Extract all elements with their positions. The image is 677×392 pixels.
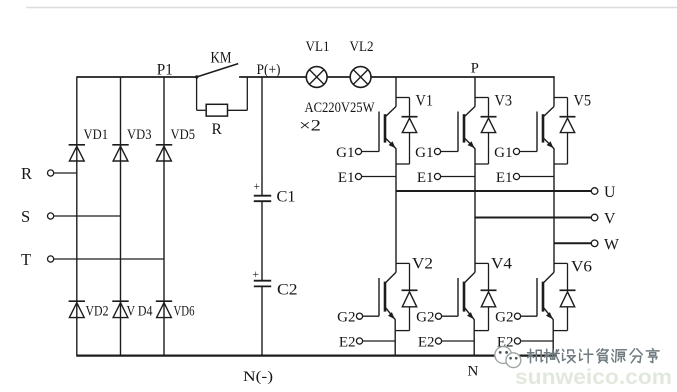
svg-text:VL2: VL2 (350, 39, 374, 55)
svg-text:KM: KM (211, 50, 232, 67)
terminal E1 of V1 (355, 173, 361, 179)
wire bypass left vertical (196, 77, 198, 110)
terminal G2 of V6 (514, 313, 520, 319)
wire V6 diode stub top (554, 262, 568, 264)
diode VD4 (112, 300, 128, 302)
capacitor C1 (254, 195, 271, 197)
svg-text:N: N (468, 364, 479, 380)
svg-text:G1: G1 (494, 145, 512, 161)
svg-text:V3: V3 (495, 93, 513, 110)
svg-text:T: T (21, 250, 31, 269)
svg-text:G1: G1 (415, 145, 433, 161)
wire bottom N(-) bus (76, 355, 556, 357)
svg-text:C2: C2 (277, 282, 298, 299)
svg-text:AC220V25W: AC220V25W (305, 100, 375, 116)
terminal G2 of V4 (435, 313, 441, 319)
terminal G1 of V5 (513, 148, 519, 154)
terminal E2 of V2 (356, 338, 362, 344)
wire V5 diode stub top (554, 97, 568, 99)
wire V3 diode stub bottom (475, 163, 489, 165)
wire bypass right vertical (246, 77, 248, 110)
svg-text:VD2: VD2 (86, 304, 109, 320)
wire V2 diode stub bottom (395, 330, 409, 332)
svg-text:+: + (254, 181, 261, 193)
transistor V5 IGBT (543, 107, 554, 118)
svg-text:VD1: VD1 (84, 127, 109, 143)
lamp VL1 (306, 67, 327, 88)
svg-text:N(-): N(-) (243, 369, 273, 385)
transistor V1 IGBT (385, 107, 396, 118)
wire V3 collector rail (474, 77, 476, 107)
wire V4 diode stub bottom (474, 330, 488, 332)
wire rectifier leg 2 vertical (120, 77, 122, 356)
terminal W (591, 240, 598, 247)
transistor V3 IGBT (464, 107, 475, 118)
wire V4 diode stub top (475, 262, 489, 264)
diode VD2 (69, 300, 85, 302)
diode VD1 (69, 144, 85, 146)
wire top bus P1 segment (76, 76, 196, 78)
svg-text:V: V (604, 211, 616, 228)
wire V1 emitter down (395, 148, 397, 164)
wire V3 diode stub top (475, 97, 489, 99)
wire V4 collector rail (474, 218, 476, 273)
svg-text:G2: G2 (416, 310, 434, 326)
wire V6 gate lead (521, 315, 537, 317)
svg-text:P(+): P(+) (257, 62, 281, 78)
terminal E2 of V4 (435, 338, 441, 344)
wire bypass to resistor left (197, 109, 207, 111)
wire R to leg1 (54, 172, 77, 174)
capacitor C2 (254, 280, 271, 282)
wire E2 lead of V4 (442, 340, 475, 342)
svg-text:E2: E2 (418, 335, 435, 351)
wire between lamps VL1-VL2 (327, 76, 350, 78)
svg-text:C1: C1 (277, 189, 296, 206)
wire V5 collector rail (553, 77, 555, 107)
wire S to leg2 (54, 215, 121, 217)
wire E2 lead of V2 (363, 340, 396, 342)
diode V6 freewheel (567, 263, 569, 290)
wire V1 collector rail (395, 77, 397, 107)
svg-text:VD5: VD5 (171, 127, 196, 143)
svg-text:V4: V4 (491, 256, 512, 273)
svg-text:R: R (212, 121, 223, 138)
svg-text:×2: ×2 (299, 118, 321, 135)
svg-text:sunweico.com: sunweico.com (515, 366, 672, 387)
wire V6 collector rail (553, 243, 555, 272)
wire V1 emitter to midpoint (395, 164, 397, 191)
diode VD3 (112, 144, 128, 146)
wire phase V output line (475, 217, 594, 219)
wire V2 diode stub top (396, 262, 410, 264)
wire V4 emitter down (473, 319, 475, 330)
wire V5 gate lead (520, 151, 537, 153)
diode V2 freewheel (409, 263, 411, 290)
diode V5 freewheel (567, 98, 569, 118)
svg-text:P: P (471, 61, 479, 77)
wire resistor to bypass right (228, 109, 248, 111)
wire phase W output line (554, 242, 594, 244)
wire V3 gate lead (441, 151, 458, 153)
wire T to leg3 (54, 258, 164, 260)
transistor V4 IGBT (464, 272, 475, 283)
watermark text (528, 349, 660, 363)
terminal G2 of V2 (356, 313, 362, 319)
wire V1 diode stub bottom (396, 163, 410, 165)
wire V5 emitter to midpoint (553, 164, 555, 243)
wire V3 emitter down (474, 148, 476, 164)
wire V1 diode stub top (396, 97, 410, 99)
svg-text:VD6: VD6 (174, 304, 195, 320)
svg-text:G1: G1 (336, 145, 354, 161)
terminal E1 of V3 (434, 173, 440, 179)
svg-text:E2: E2 (339, 335, 356, 351)
svg-text:VD3: VD3 (127, 127, 152, 143)
diode V4 freewheel (488, 263, 490, 290)
wire V6 emitter to N bus (552, 331, 554, 356)
svg-text:V6: V6 (571, 259, 592, 276)
wire V2 collector rail (395, 191, 397, 272)
diode VD6 (156, 300, 172, 302)
transistor V6 IGBT (543, 272, 554, 283)
svg-text:S: S (21, 207, 30, 226)
wire phase U output line (396, 190, 594, 192)
terminal V (591, 214, 598, 221)
wire E1 lead of V3 (441, 176, 475, 178)
wire V5 emitter down (553, 148, 555, 164)
wire capacitor branch lower (261, 286, 263, 355)
watermark logo (495, 347, 521, 368)
svg-text:R: R (21, 164, 32, 183)
lamp VL2 (350, 67, 371, 88)
wire V4 emitter to N bus (473, 331, 475, 356)
wire V1 gate lead (362, 151, 379, 153)
terminal G1 of V1 (355, 148, 361, 154)
wire capacitor branch upper (261, 77, 263, 195)
svg-text:G2: G2 (337, 310, 355, 326)
terminal U (591, 188, 598, 195)
svg-text:E1: E1 (338, 170, 355, 186)
switch KM contact blade (197, 64, 239, 77)
svg-text:V D4: V D4 (127, 304, 154, 320)
svg-text:W: W (604, 236, 619, 253)
svg-text:P1: P1 (157, 62, 173, 79)
wire V3 emitter to midpoint (474, 164, 476, 218)
diode V3 freewheel (488, 98, 490, 118)
wire capacitor branch middle (261, 201, 263, 280)
svg-text:G2: G2 (495, 310, 513, 326)
wire rectifier leg 3 vertical (163, 77, 165, 356)
diode V1 freewheel (409, 98, 411, 118)
wire E1 lead of V1 (362, 176, 396, 178)
terminal G1 of V3 (434, 148, 440, 154)
wire E2 lead of V6 (521, 340, 554, 342)
terminal E2 of V6 (514, 338, 520, 344)
wire rectifier leg 1 vertical (76, 77, 78, 356)
transistor V2 IGBT (385, 272, 396, 283)
svg-text:V2: V2 (412, 256, 433, 273)
diode VD5 (156, 144, 172, 146)
wire V6 emitter down (552, 319, 554, 330)
svg-text:U: U (604, 184, 616, 201)
wire top bus segment lamp-to-P (371, 76, 554, 78)
svg-text:VL1: VL1 (306, 39, 330, 55)
wire V2 gate lead (363, 315, 379, 317)
svg-text:V5: V5 (574, 93, 592, 110)
svg-text:+: + (253, 269, 260, 281)
wire top bus segment switch-to-lamp (239, 76, 306, 78)
svg-text:E1: E1 (417, 170, 434, 186)
wire V6 diode stub bottom (553, 330, 567, 332)
wire V5 diode stub bottom (554, 163, 568, 165)
svg-text:E1: E1 (496, 170, 513, 186)
svg-text:V1: V1 (416, 93, 434, 110)
wire V2 emitter down (394, 319, 396, 330)
terminal E1 of V5 (513, 173, 519, 179)
wire E1 lead of V5 (520, 176, 554, 178)
wire V2 emitter to N bus (394, 331, 396, 356)
wire V4 gate lead (442, 315, 458, 317)
resistor R (206, 104, 227, 116)
